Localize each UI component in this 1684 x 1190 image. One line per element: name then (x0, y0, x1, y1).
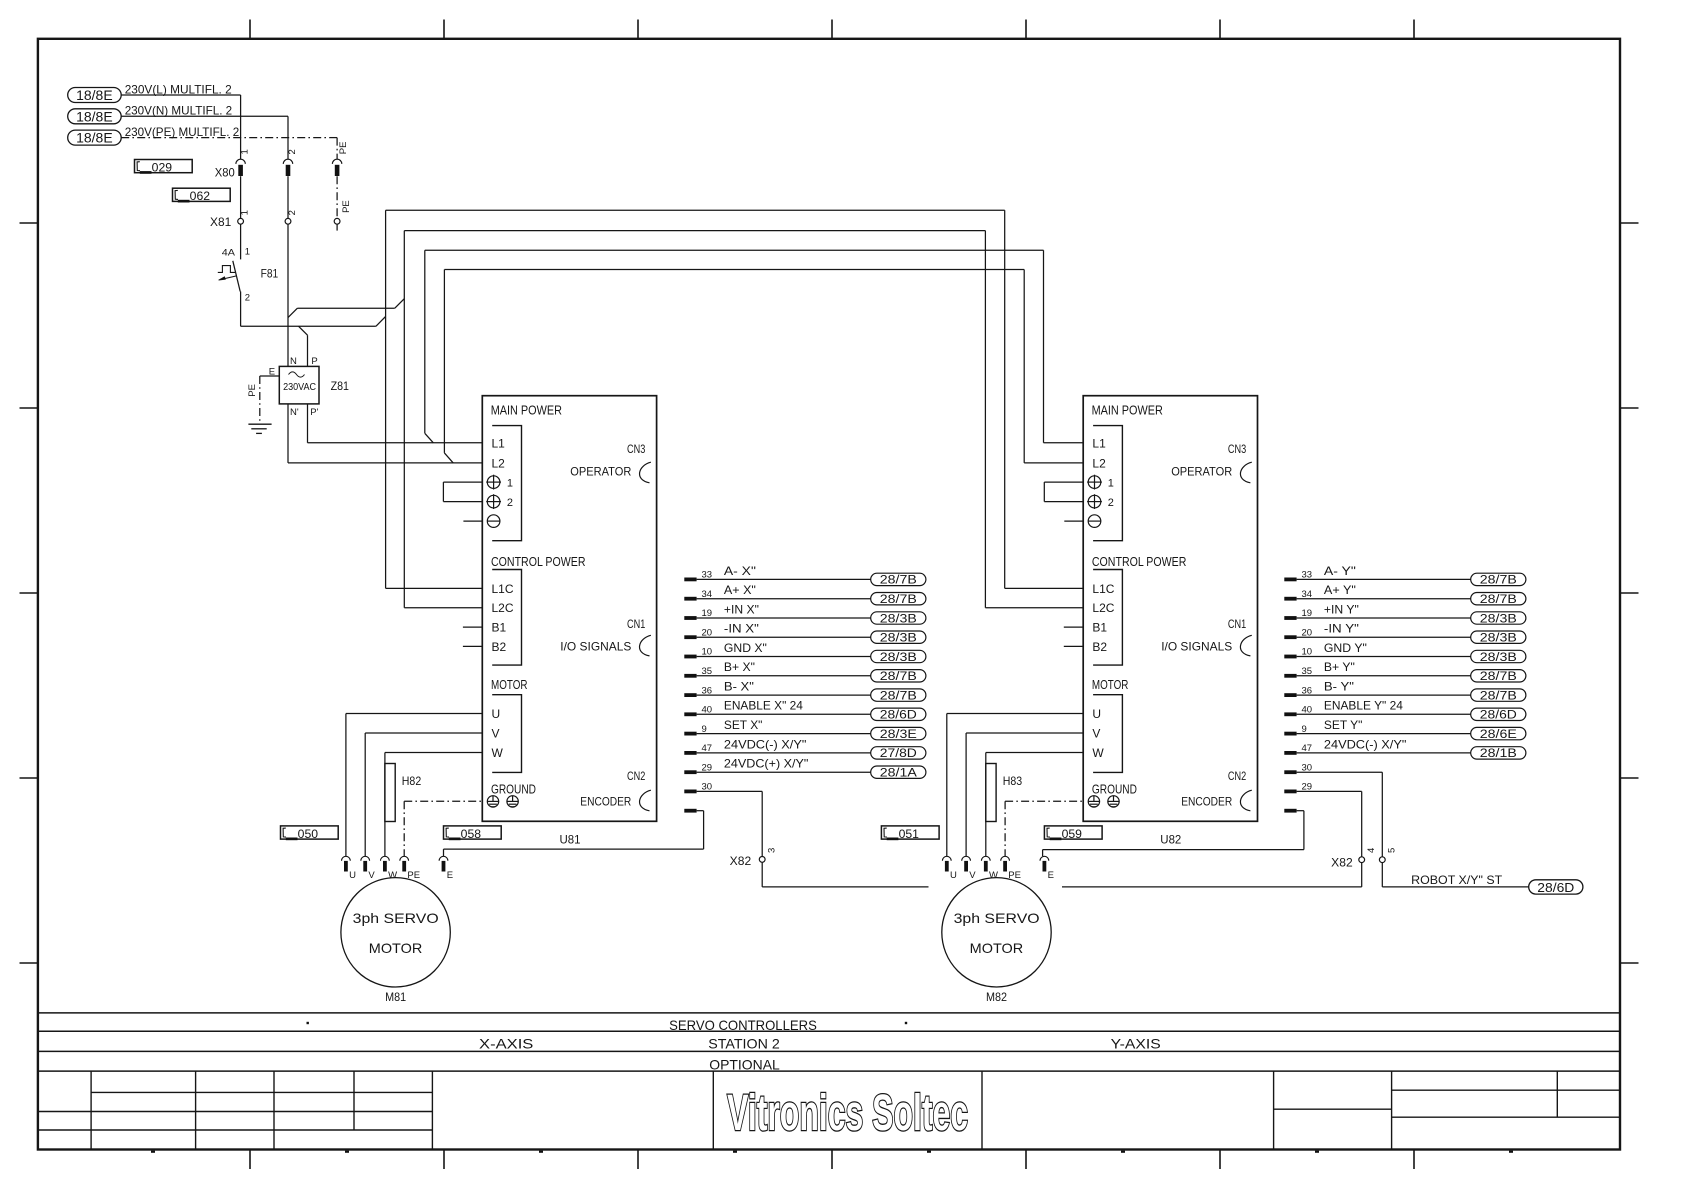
svg-text:230V(N) MULTIFL. 2: 230V(N) MULTIFL. 2 (125, 104, 233, 118)
svg-text:W: W (989, 870, 998, 881)
svg-text:28/7B: 28/7B (1480, 671, 1517, 683)
svg-text:SERVO CONTROLLERS: SERVO CONTROLLERS (669, 1017, 817, 1033)
svg-text:A- Y": A- Y" (1324, 564, 1356, 578)
svg-text:W: W (492, 746, 504, 760)
svg-text:M81: M81 (385, 990, 406, 1004)
svg-text:28/6D: 28/6D (1480, 710, 1517, 722)
svg-text:PE: PE (247, 384, 258, 397)
svg-text:28/6E: 28/6E (1480, 729, 1517, 741)
svg-text:2: 2 (287, 210, 298, 215)
svg-text:H83: H83 (1003, 774, 1023, 788)
svg-text:34: 34 (1302, 589, 1313, 600)
svg-text:E: E (447, 870, 453, 881)
svg-text:47: 47 (1302, 743, 1313, 754)
svg-text:MAIN POWER: MAIN POWER (1092, 402, 1163, 417)
svg-text:28/3B: 28/3B (1480, 652, 1517, 664)
svg-text:SET Y": SET Y" (1324, 718, 1363, 732)
svg-text:1: 1 (507, 478, 513, 490)
svg-text:28/7B: 28/7B (1480, 690, 1517, 702)
svg-text:2: 2 (287, 149, 298, 154)
svg-text:B+ X": B+ X" (724, 660, 755, 674)
svg-text:PE: PE (338, 142, 349, 155)
svg-text:GROUND: GROUND (1092, 781, 1137, 796)
svg-text:062: 062 (190, 189, 211, 203)
svg-text:28/6D: 28/6D (1537, 881, 1574, 895)
svg-text:10: 10 (1302, 647, 1313, 658)
svg-text:28/3B: 28/3B (880, 633, 917, 645)
svg-text:L1C: L1C (492, 582, 514, 596)
svg-text:V: V (368, 870, 375, 881)
svg-text:2: 2 (507, 497, 513, 509)
svg-text:34: 34 (702, 589, 713, 600)
svg-text:CONTROL POWER: CONTROL POWER (491, 554, 586, 569)
svg-text:PE: PE (341, 200, 352, 213)
svg-text:STATION 2: STATION 2 (708, 1035, 780, 1051)
svg-text:GND X": GND X" (724, 641, 767, 655)
svg-text:24VDC(+) X/Y": 24VDC(+) X/Y" (724, 757, 809, 771)
svg-text:28/3B: 28/3B (880, 652, 917, 664)
svg-text:3ph SERVO: 3ph SERVO (353, 910, 439, 926)
svg-text:CN3: CN3 (627, 442, 646, 456)
svg-text:GROUND: GROUND (491, 781, 536, 796)
svg-text:3ph SERVO: 3ph SERVO (954, 910, 1040, 926)
svg-text:I/O SIGNALS: I/O SIGNALS (1161, 639, 1232, 653)
svg-text:28/7B: 28/7B (880, 575, 917, 587)
svg-text:CN2: CN2 (627, 769, 646, 783)
svg-text:28/7B: 28/7B (1480, 575, 1517, 587)
svg-text:W: W (388, 870, 397, 881)
svg-text:X-AXIS: X-AXIS (479, 1035, 533, 1051)
svg-text:B- Y": B- Y" (1324, 680, 1354, 694)
svg-text:Z81: Z81 (331, 379, 350, 393)
svg-text:CN3: CN3 (1228, 442, 1247, 456)
svg-text:L1: L1 (1092, 437, 1106, 451)
svg-text:+IN Y": +IN Y" (1324, 602, 1359, 616)
svg-text:L1: L1 (492, 437, 506, 451)
svg-text:GND Y": GND Y" (1324, 641, 1367, 655)
svg-text:OPERATOR: OPERATOR (570, 465, 631, 479)
svg-text:4A: 4A (222, 247, 236, 258)
svg-text:18/8E: 18/8E (76, 109, 113, 124)
svg-text:2: 2 (245, 293, 250, 304)
svg-text:V: V (492, 727, 500, 741)
svg-text:051: 051 (899, 827, 920, 841)
svg-text:ENCODER: ENCODER (1181, 795, 1232, 809)
svg-text:MOTOR: MOTOR (970, 940, 1024, 956)
svg-text:A+ Y": A+ Y" (1324, 583, 1356, 597)
svg-text:28/3B: 28/3B (880, 613, 917, 625)
svg-text:24VDC(-) X/Y": 24VDC(-) X/Y" (724, 737, 807, 751)
svg-text:3: 3 (767, 848, 778, 853)
svg-text:B2: B2 (492, 640, 507, 654)
svg-text:230V(PE) MULTIFL. 2: 230V(PE) MULTIFL. 2 (125, 125, 240, 139)
svg-text:ROBOT X/Y" ST: ROBOT X/Y" ST (1411, 873, 1503, 887)
svg-text:9: 9 (702, 724, 707, 735)
svg-text:24VDC(-) X/Y": 24VDC(-) X/Y" (1324, 737, 1407, 751)
svg-text:L2C: L2C (492, 601, 514, 615)
svg-text:W: W (1092, 746, 1104, 760)
svg-text:059: 059 (1062, 827, 1083, 841)
svg-text:CN1: CN1 (627, 617, 646, 631)
svg-text:L1C: L1C (1092, 582, 1114, 596)
svg-text:B- X": B- X" (724, 680, 754, 694)
svg-text:MOTOR: MOTOR (369, 940, 423, 956)
svg-text:U: U (492, 707, 501, 721)
svg-text:I/O SIGNALS: I/O SIGNALS (560, 639, 631, 653)
svg-text:V: V (969, 870, 976, 881)
svg-text:18/8E: 18/8E (76, 88, 113, 103)
svg-text:1: 1 (245, 247, 250, 258)
svg-text:18/8E: 18/8E (76, 131, 113, 146)
svg-text:L2C: L2C (1092, 601, 1114, 615)
svg-text:35: 35 (1302, 666, 1313, 677)
svg-text:B+ Y": B+ Y" (1324, 660, 1355, 674)
svg-text:19: 19 (702, 608, 713, 619)
svg-text:N': N' (290, 407, 299, 418)
svg-text:4: 4 (1366, 848, 1377, 853)
svg-text:N: N (290, 356, 297, 367)
svg-text:Y-AXIS: Y-AXIS (1111, 1035, 1161, 1051)
svg-text:40: 40 (1302, 705, 1313, 716)
svg-text:+IN X": +IN X" (724, 602, 759, 616)
svg-text:V: V (1092, 727, 1100, 741)
svg-text:B1: B1 (1092, 621, 1107, 635)
svg-text:28/3B: 28/3B (1480, 633, 1517, 645)
svg-text:28/3E: 28/3E (880, 729, 917, 741)
svg-text:050: 050 (298, 827, 319, 841)
svg-text:5: 5 (1387, 848, 1398, 853)
svg-text:A+ X": A+ X" (724, 583, 756, 597)
svg-text:058: 058 (461, 827, 482, 841)
svg-text:10: 10 (702, 647, 713, 658)
svg-text:20: 20 (1302, 627, 1313, 638)
svg-text:28/1A: 28/1A (880, 768, 917, 780)
svg-text:Vitronics Soltec: Vitronics Soltec (727, 1084, 968, 1141)
svg-text:MOTOR: MOTOR (491, 677, 528, 692)
svg-text:-IN X": -IN X" (724, 622, 759, 636)
svg-text:X81: X81 (210, 215, 232, 229)
svg-text:CN2: CN2 (1228, 769, 1247, 783)
svg-text:33: 33 (702, 570, 713, 581)
svg-text:H82: H82 (402, 774, 422, 788)
svg-text:28/1B: 28/1B (1480, 748, 1517, 760)
svg-text:47: 47 (702, 743, 713, 754)
svg-text:L2: L2 (1092, 456, 1106, 470)
svg-text:P': P' (310, 407, 318, 418)
svg-text:L2: L2 (492, 456, 506, 470)
svg-text:20: 20 (702, 627, 713, 638)
svg-text:X80: X80 (215, 165, 235, 179)
svg-text:33: 33 (1302, 570, 1313, 581)
svg-text:OPTIONAL: OPTIONAL (709, 1057, 780, 1073)
svg-text:35: 35 (702, 666, 713, 677)
svg-text:-IN Y": -IN Y" (1324, 622, 1359, 636)
svg-text:28/7B: 28/7B (880, 671, 917, 683)
svg-text:1: 1 (1108, 478, 1114, 490)
svg-text:B2: B2 (1092, 640, 1107, 654)
svg-text:U: U (349, 870, 356, 881)
svg-text:28/7B: 28/7B (880, 594, 917, 606)
svg-text:ENCODER: ENCODER (580, 795, 631, 809)
svg-text:U: U (1092, 707, 1101, 721)
svg-text:A- X": A- X" (724, 564, 756, 578)
svg-text:2: 2 (1108, 497, 1114, 509)
svg-text:28/6D: 28/6D (880, 710, 917, 722)
svg-text:F81: F81 (261, 267, 279, 281)
svg-text:27/8D: 27/8D (880, 748, 917, 760)
svg-text:1: 1 (240, 210, 251, 215)
svg-text:28/7B: 28/7B (880, 690, 917, 702)
svg-text:OPERATOR: OPERATOR (1171, 465, 1232, 479)
svg-text:B1: B1 (492, 621, 507, 635)
svg-text:36: 36 (1302, 685, 1313, 696)
svg-text:U81: U81 (560, 832, 581, 846)
svg-text:E: E (1048, 870, 1054, 881)
svg-text:MOTOR: MOTOR (1092, 677, 1129, 692)
svg-text:P: P (311, 356, 317, 367)
svg-text:SET X": SET X" (724, 718, 763, 732)
svg-text:28/7B: 28/7B (1480, 594, 1517, 606)
svg-text:CONTROL POWER: CONTROL POWER (1092, 554, 1187, 569)
svg-text:ENABLE X" 24: ENABLE X" 24 (724, 699, 803, 713)
svg-text:X82: X82 (730, 854, 752, 868)
svg-text:CN1: CN1 (1228, 617, 1247, 631)
svg-text:ENABLE Y" 24: ENABLE Y" 24 (1324, 699, 1403, 713)
svg-text:U82: U82 (1160, 832, 1181, 846)
svg-text:029: 029 (152, 161, 173, 175)
svg-text:1: 1 (240, 149, 251, 154)
svg-text:MAIN POWER: MAIN POWER (491, 402, 562, 417)
svg-text:28/3B: 28/3B (1480, 613, 1517, 625)
svg-text:X82: X82 (1331, 856, 1353, 870)
svg-text:19: 19 (1302, 608, 1313, 619)
svg-text:230VAC: 230VAC (283, 382, 316, 393)
svg-text:9: 9 (1302, 724, 1307, 735)
svg-text:M82: M82 (986, 990, 1007, 1004)
svg-text:36: 36 (702, 685, 713, 696)
svg-text:40: 40 (702, 705, 713, 716)
svg-text:29: 29 (702, 762, 713, 773)
svg-text:U: U (950, 870, 957, 881)
